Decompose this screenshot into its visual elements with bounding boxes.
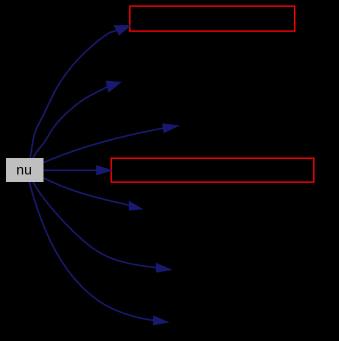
svg-text:nu: nu	[16, 161, 32, 177]
